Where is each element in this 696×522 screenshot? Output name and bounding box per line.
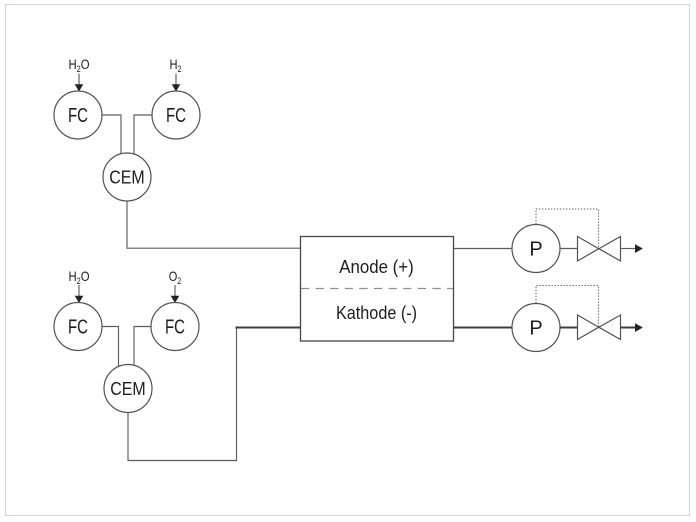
- flow controller FC4: [151, 303, 199, 351]
- wire H2O inlet arrow into FC3: [75, 285, 84, 303]
- wire P1 to valve V1: [560, 248, 578, 250]
- wire cathode outlet to P2: [454, 327, 512, 329]
- wire anode outlet to P1: [454, 248, 512, 250]
- flow controller FC3: [54, 303, 102, 351]
- wire valve V1 outlet with arrow: [621, 244, 643, 253]
- membrane separator (dashed): [301, 288, 453, 290]
- humidifier CEM1: [103, 153, 151, 201]
- valve V2: [578, 315, 621, 340]
- valve V1: [578, 237, 621, 262]
- wire CEM2 loop down and around: [128, 328, 237, 461]
- wire P2 to valve V2: [560, 327, 578, 329]
- svg-text:FC: FC: [166, 105, 186, 127]
- electrolysis cell box: [301, 237, 454, 342]
- signal line P1 to valve V1 (dotted): [536, 209, 599, 248]
- wire H2 inlet arrow into FC2: [172, 74, 181, 92]
- svg-text:CEM: CEM: [110, 378, 146, 399]
- svg-text:FC: FC: [68, 317, 88, 339]
- svg-text:FC: FC: [165, 317, 185, 339]
- wire CEM1 to anode inlet: [127, 201, 300, 248]
- wire O2 inlet arrow into FC4: [171, 285, 180, 303]
- wire FC4 to CEM2: [134, 327, 151, 367]
- wire FC3 to CEM2: [102, 327, 119, 367]
- svg-text:FC: FC: [68, 105, 88, 127]
- humidifier CEM2: [104, 365, 152, 413]
- wire loop to cathode inlet: [236, 327, 301, 329]
- signal line P2 to valve V2 (dotted): [536, 286, 599, 327]
- svg-text:P: P: [529, 239, 542, 261]
- wire H2O inlet arrow into FC1: [75, 74, 84, 92]
- flow controller FC1: [54, 91, 102, 139]
- wire FC1 to CEM1: [102, 115, 121, 155]
- svg-text:Anode (+): Anode (+): [339, 257, 414, 277]
- svg-text:P: P: [529, 318, 542, 340]
- flow controller FC2: [152, 91, 200, 139]
- wire valve V2 outlet with arrow: [621, 323, 643, 332]
- svg-text:CEM: CEM: [109, 166, 145, 187]
- pressure controller P2: [512, 304, 560, 352]
- pressure controller P1: [512, 225, 560, 273]
- svg-text:Kathode (-): Kathode (-): [336, 303, 417, 323]
- wire FC2 to CEM1: [134, 115, 152, 155]
